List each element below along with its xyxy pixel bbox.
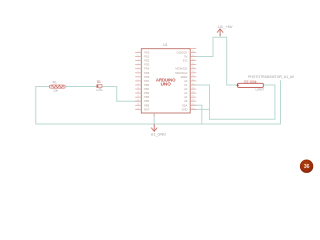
svg-text:A3: A3 xyxy=(184,91,188,95)
power flag +5V arrow xyxy=(217,29,223,36)
svg-text:12: 12 xyxy=(137,96,139,98)
svg-text:LDR07: LDR07 xyxy=(255,87,264,91)
diode D1 xyxy=(97,85,102,88)
svg-text:AREF: AREF xyxy=(180,75,187,79)
U1 left pin name labels xyxy=(144,50,150,111)
svg-text:19: 19 xyxy=(192,96,194,98)
svg-text:6: 6 xyxy=(138,71,139,73)
svg-text:U1: U1 xyxy=(163,43,168,47)
wire net GND left vertical+horizontals xyxy=(36,80,281,124)
wire signal net phototransistor to IC xyxy=(190,85,275,119)
U1 left pins xyxy=(135,52,141,109)
svg-text:28: 28 xyxy=(192,59,194,61)
svg-text:14: 14 xyxy=(137,104,139,106)
svg-text:3: 3 xyxy=(138,59,139,61)
svg-text:PB0: PB0 xyxy=(144,83,149,87)
svg-text:36: 36 xyxy=(304,164,310,170)
svg-text:13: 13 xyxy=(137,100,139,102)
svg-text:PHOTOTRANSISTOR_U1_A0: PHOTOTRANSISTOR_U1_A0 xyxy=(248,75,294,79)
svg-text:25: 25 xyxy=(192,71,194,73)
svg-text:PD1: PD1 xyxy=(144,55,150,59)
svg-text:21: 21 xyxy=(192,88,194,90)
svg-text:GND: GND xyxy=(182,107,188,111)
U1 right pin name labels xyxy=(175,50,188,111)
wire D1 right to IC left pin D11 xyxy=(102,87,141,102)
wire IC right pin to bottom rail xyxy=(190,105,202,124)
svg-text:24: 24 xyxy=(192,75,194,77)
wire IC bottom pin to ground xyxy=(153,113,155,124)
svg-text:29: 29 xyxy=(192,55,194,57)
svg-text:20: 20 xyxy=(192,92,194,94)
svg-text:5V: 5V xyxy=(184,55,187,59)
U1 center part name text xyxy=(156,78,176,87)
svg-text:PD5: PD5 xyxy=(144,71,150,75)
svg-text:A5: A5 xyxy=(184,99,188,103)
svg-text:MOSI/D11: MOSI/D11 xyxy=(175,67,187,71)
svg-text:PD2: PD2 xyxy=(144,59,150,63)
svg-text:D1: D1 xyxy=(97,80,101,84)
svg-text:18: 18 xyxy=(192,100,194,102)
svg-text:R1: R1 xyxy=(53,80,57,84)
svg-text:SDA: SDA xyxy=(182,103,188,107)
svg-text:U1_GND: U1_GND xyxy=(151,133,167,137)
svg-text:27: 27 xyxy=(192,63,194,65)
svg-text:R2 100k: R2 100k xyxy=(244,80,257,84)
svg-text:PD0: PD0 xyxy=(144,50,150,54)
svg-text:A0: A0 xyxy=(184,79,188,83)
svg-text:PD3: PD3 xyxy=(144,63,150,67)
U1 right pins xyxy=(190,48,196,109)
svg-text:22: 22 xyxy=(192,83,194,85)
svg-text:PB2: PB2 xyxy=(144,91,149,95)
svg-text:MISO/D12: MISO/D12 xyxy=(175,71,188,75)
svg-text:D13/SCK: D13/SCK xyxy=(177,50,188,54)
svg-text:4: 4 xyxy=(138,63,139,65)
op-amp U1 body (Arduino Uno IC box) xyxy=(141,49,190,113)
photoresistor R2 xyxy=(237,83,264,87)
svg-text:PD6: PD6 xyxy=(144,75,150,79)
U1 bottom pin stub xyxy=(153,113,155,116)
svg-text:PB1: PB1 xyxy=(144,87,149,91)
svg-text:15: 15 xyxy=(137,108,139,110)
resistor R1 xyxy=(49,85,65,88)
svg-text:1: 1 xyxy=(138,51,139,53)
svg-text:UNO: UNO xyxy=(161,82,172,87)
svg-text:A2: A2 xyxy=(184,87,188,91)
svg-text:PB5: PB5 xyxy=(144,103,149,107)
ground flag arrow xyxy=(151,124,157,131)
U1 pin numbers right xyxy=(192,51,194,110)
svg-text:10: 10 xyxy=(137,88,139,90)
svg-text:30: 30 xyxy=(192,51,194,53)
svg-text:11: 11 xyxy=(137,92,139,94)
svg-text:26: 26 xyxy=(192,67,194,69)
svg-text:PB3: PB3 xyxy=(144,95,149,99)
svg-text:RST: RST xyxy=(144,107,150,111)
svg-text:A1: A1 xyxy=(184,83,188,87)
U1 pin numbers left xyxy=(137,51,139,110)
svg-text:23: 23 xyxy=(192,79,194,81)
svg-text:5: 5 xyxy=(138,67,139,69)
svg-text:3V3: 3V3 xyxy=(183,59,188,63)
svg-text:PD4: PD4 xyxy=(144,67,150,71)
slide page number badge xyxy=(300,160,313,173)
svg-text:U1_+5V: U1_+5V xyxy=(218,24,233,29)
svg-text:8: 8 xyxy=(138,79,139,81)
svg-text:9: 9 xyxy=(138,83,139,85)
svg-text:PD7: PD7 xyxy=(144,79,150,83)
wire R1 right to D1 left xyxy=(65,86,96,88)
svg-text:16: 16 xyxy=(192,108,194,110)
svg-text:DIODE: DIODE xyxy=(96,90,103,92)
svg-text:7: 7 xyxy=(138,75,139,77)
svg-text:17: 17 xyxy=(192,104,194,106)
svg-text:A4: A4 xyxy=(184,95,188,99)
wire +5V net xyxy=(190,33,237,85)
svg-text:PB4: PB4 xyxy=(144,99,149,103)
svg-text:2: 2 xyxy=(138,55,139,57)
svg-text:10k: 10k xyxy=(53,88,58,92)
